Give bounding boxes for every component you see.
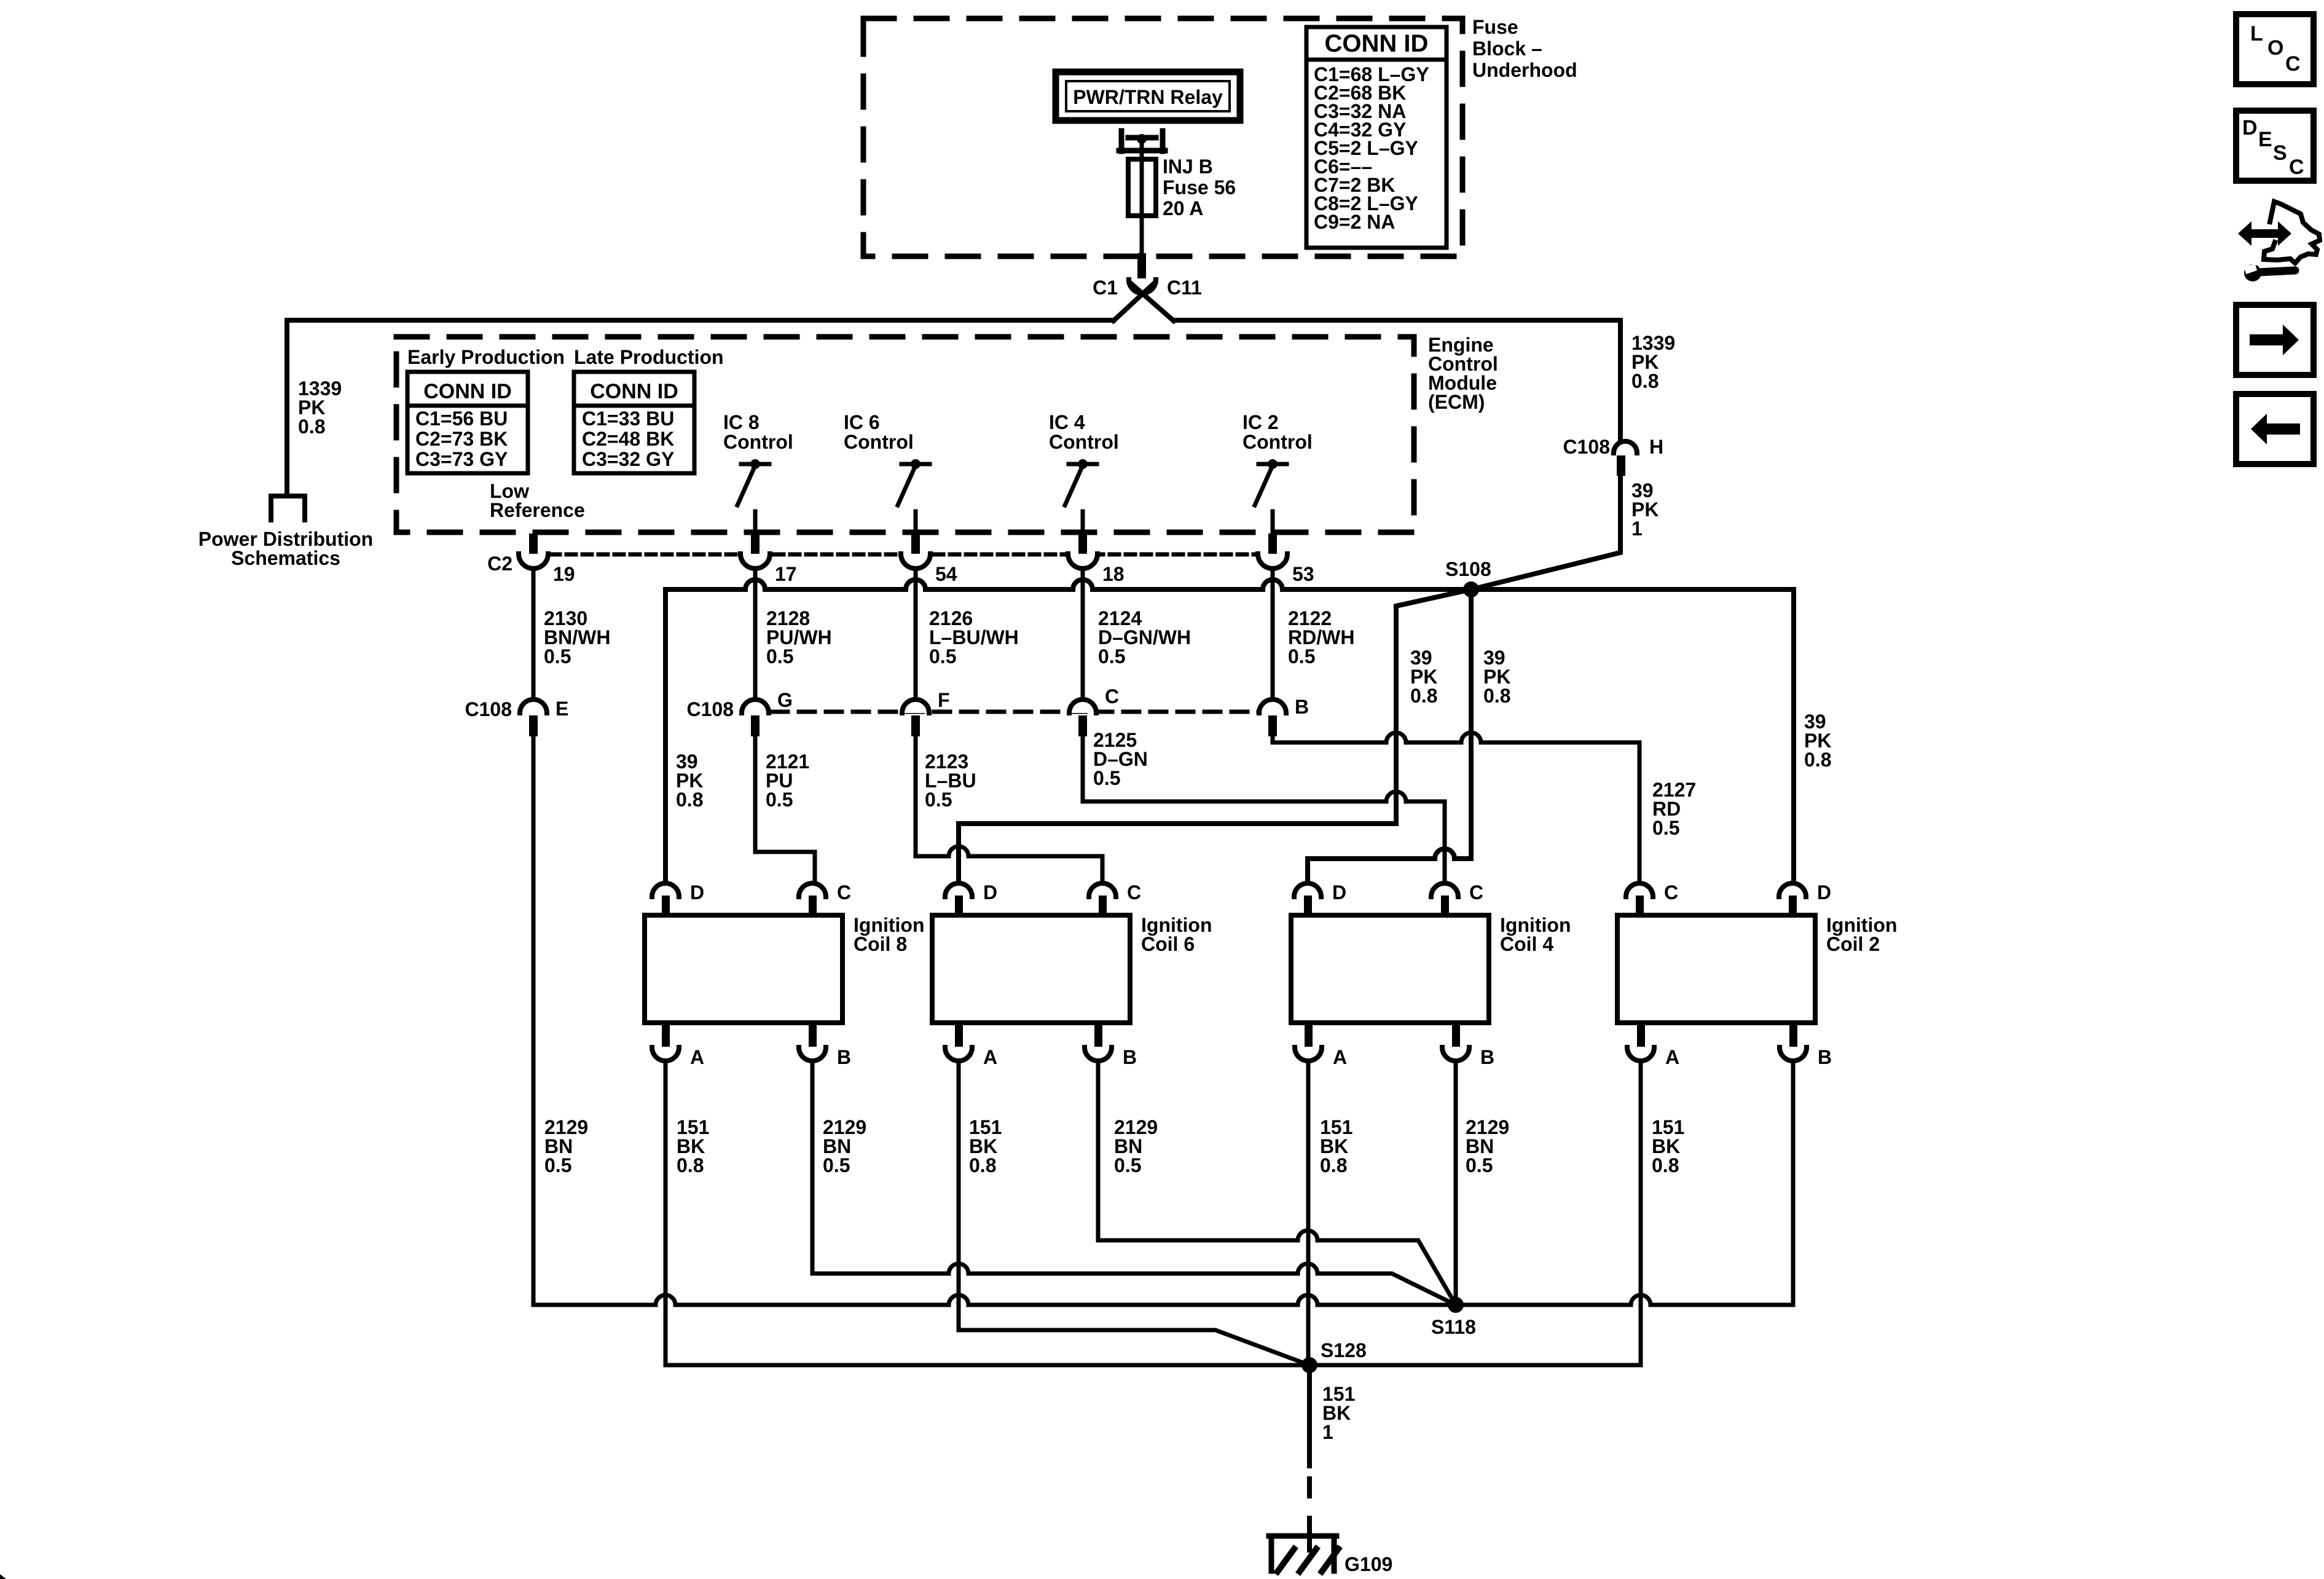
- svg-text:B: B: [837, 1046, 851, 1068]
- svg-text:C2=48 BK: C2=48 BK: [582, 428, 674, 450]
- svg-text:B: B: [1123, 1046, 1137, 1068]
- svg-text:18: 18: [1102, 563, 1125, 585]
- wire 2129 BN from coil 6 B to S118: [1098, 1061, 1456, 1305]
- svg-text:C108: C108: [465, 698, 512, 720]
- fuse block - underhood (dashed outline): [863, 18, 1462, 256]
- svg-text:20 A: 20 A: [1163, 197, 1203, 219]
- svg-text:0.5: 0.5: [925, 789, 952, 811]
- svg-text:C108: C108: [687, 698, 734, 720]
- node Power Distribution off-page bracket: [271, 496, 305, 520]
- connector table CONN ID (late production): [574, 372, 694, 473]
- svg-text:S108: S108: [1445, 558, 1491, 580]
- svg-text:G: G: [777, 689, 793, 711]
- connector C108 pin F: [902, 699, 929, 713]
- ignition coil 2 terminal C: [1626, 883, 1653, 897]
- svg-text:A: A: [1665, 1046, 1679, 1068]
- connector table CONN ID (early production): [407, 372, 528, 473]
- wire 2129 BN low reference bus from C108 E through S118 to coil 2 B: [533, 736, 1793, 1305]
- connector table CONN ID (fuse block underhood): [1306, 27, 1447, 248]
- svg-text:C11: C11: [1167, 277, 1202, 299]
- connector C108 pin E: [520, 699, 547, 713]
- svg-text:Schematics: Schematics: [231, 547, 340, 569]
- ignition coil 8 terminal B: [809, 1024, 817, 1047]
- svg-text:0.5: 0.5: [1466, 1154, 1493, 1176]
- connector C2 pin 18: [1070, 550, 1095, 558]
- wire 2126 L-BU/WH from pin 54 to C108 F: [914, 569, 918, 699]
- wire 2123 L-BU from C108 F to ignition coil 6 C: [916, 736, 1102, 884]
- svg-text:C: C: [2289, 156, 2304, 179]
- svg-text:C1=33 BU: C1=33 BU: [582, 408, 674, 430]
- svg-text:O: O: [2267, 36, 2283, 60]
- svg-text:Underhood: Underhood: [1472, 59, 1577, 81]
- svg-text:A: A: [983, 1046, 997, 1068]
- svg-text:0.5: 0.5: [1114, 1154, 1141, 1176]
- svg-text:0.8: 0.8: [969, 1154, 996, 1176]
- svg-text:0.8: 0.8: [1483, 685, 1510, 707]
- svg-text:CONN ID: CONN ID: [590, 380, 678, 403]
- splice S108: [1463, 581, 1479, 597]
- relay contact bracket and pin: [1119, 131, 1125, 151]
- svg-text:54: 54: [935, 563, 957, 585]
- svg-text:0.5: 0.5: [1288, 645, 1315, 667]
- svg-text:A: A: [690, 1046, 704, 1068]
- connector C108 pin B: [1259, 699, 1286, 713]
- connector C108 pin C: [1069, 699, 1096, 713]
- svg-text:Coil 6: Coil 6: [1141, 933, 1195, 955]
- svg-text:Reference: Reference: [490, 499, 585, 521]
- svg-text:A: A: [1333, 1046, 1347, 1068]
- svg-text:F: F: [938, 689, 950, 711]
- svg-text:0.8: 0.8: [298, 415, 325, 438]
- wire 2125 D-GN from C108 C to ignition coil 4 C: [1083, 736, 1445, 884]
- svg-text:E: E: [555, 698, 568, 720]
- relay K: PWR/TRN Relay box: [1056, 72, 1240, 120]
- svg-text:C3=32 GY: C3=32 GY: [582, 448, 674, 470]
- page corner mark: [0, 1574, 6, 1579]
- svg-text:G109: G109: [1345, 1553, 1392, 1575]
- connector C2 pin 53: [1260, 550, 1285, 558]
- sidebar icon back arrow: [2236, 394, 2314, 464]
- svg-text:D: D: [690, 881, 704, 904]
- connector C108 pin H: [1614, 441, 1637, 453]
- svg-text:Coil 2: Coil 2: [1826, 933, 1880, 955]
- svg-text:0.8: 0.8: [1804, 749, 1831, 771]
- svg-text:B: B: [1480, 1046, 1494, 1068]
- sidebar icon DESC: [2236, 111, 2314, 181]
- svg-text:H: H: [1649, 436, 1663, 458]
- svg-text:IC 8: IC 8: [723, 411, 760, 433]
- svg-text:1: 1: [1631, 518, 1643, 540]
- svg-text:Control: Control: [1242, 431, 1313, 453]
- connector C2 pin 17: [743, 550, 767, 558]
- wire 151 BK from coil 4 A to S128: [1306, 1061, 1311, 1365]
- svg-text:C2: C2: [487, 553, 512, 575]
- svg-text:IC 6: IC 6: [844, 411, 880, 433]
- connector C2 pin 19: [521, 550, 546, 558]
- svg-text:IC 4: IC 4: [1049, 411, 1085, 433]
- ignition coil 4 terminal A: [1305, 1024, 1313, 1047]
- splice S128: [1301, 1357, 1317, 1373]
- svg-text:0.8: 0.8: [1652, 1154, 1679, 1176]
- ignition coil 6 terminal B: [1094, 1024, 1102, 1047]
- wire 39 PK from C108 H down through S108 to coil 6 D: [959, 476, 1620, 884]
- wire 2124 D-GN/WH from pin 18 to C108 C: [1081, 569, 1085, 699]
- svg-text:0.5: 0.5: [1652, 817, 1679, 839]
- ignition coil 8 terminal A: [662, 1024, 670, 1047]
- svg-text:C9=2 NA: C9=2 NA: [1314, 211, 1396, 233]
- svg-text:PWR/TRN Relay: PWR/TRN Relay: [1073, 86, 1223, 108]
- svg-text:53: 53: [1292, 563, 1314, 585]
- svg-text:S: S: [2273, 141, 2287, 165]
- svg-text:Block –: Block –: [1472, 37, 1542, 60]
- svg-text:C: C: [1105, 685, 1119, 707]
- svg-text:C: C: [1127, 881, 1141, 904]
- svg-text:Coil 8: Coil 8: [854, 933, 907, 955]
- Engine Control Module (ECM) dashed box: [396, 337, 1414, 532]
- svg-text:0.5: 0.5: [766, 789, 793, 811]
- wire 151 BK from coil 6 A to S128: [959, 1061, 1309, 1365]
- svg-text:C2=73 BK: C2=73 BK: [415, 428, 508, 450]
- svg-text:C: C: [1469, 881, 1483, 904]
- ignition coil 2 box: [1617, 915, 1815, 1023]
- svg-text:S118: S118: [1431, 1316, 1476, 1338]
- ignition coil 4 terminal B: [1452, 1024, 1460, 1047]
- fuse F56 symbol (INJ B Fuse 56 20 A): [1128, 159, 1156, 216]
- svg-text:INJ B: INJ B: [1163, 156, 1213, 178]
- connector C2 pin 54: [903, 550, 928, 558]
- svg-text:0.8: 0.8: [676, 789, 703, 811]
- wire 2121 PU from C108 G to ignition coil 8 C: [755, 736, 815, 884]
- connector row dashed line (C108): [772, 710, 1260, 714]
- svg-text:C: C: [2285, 52, 2301, 76]
- svg-text:CONN ID: CONN ID: [423, 380, 512, 403]
- svg-text:E: E: [2258, 128, 2272, 151]
- svg-text:IC 2: IC 2: [1242, 411, 1279, 433]
- ignition coil 8 box: [645, 915, 842, 1023]
- splice S118: [1448, 1297, 1464, 1313]
- ignition coil 2 terminal B: [1789, 1024, 1797, 1047]
- svg-text:Fuse 56: Fuse 56: [1163, 176, 1236, 199]
- svg-text:L: L: [2250, 22, 2263, 45]
- svg-text:C: C: [837, 881, 851, 904]
- svg-text:C: C: [1664, 881, 1678, 904]
- ignition coil 2 terminal D: [1779, 883, 1806, 897]
- ignition coil 8 terminal C: [799, 883, 826, 897]
- wire 1339 PK right branch to C108 H: [1174, 320, 1620, 439]
- svg-text:0.5: 0.5: [544, 1154, 571, 1176]
- svg-text:Control: Control: [1049, 431, 1119, 453]
- svg-text:0.5: 0.5: [1098, 645, 1125, 667]
- svg-text:0.8: 0.8: [1320, 1154, 1347, 1176]
- wire 2122 RD/WH from pin 53 to C108 B: [1271, 569, 1275, 699]
- sidebar jump icon (double arrow with wrench): [2238, 221, 2291, 246]
- wire 2122 RD/WH continued: C108 B to wire 2127 RD to ignition coil 2 C: [1273, 733, 1639, 884]
- wire 1339 PK left branch to Power Distribution: [287, 320, 1113, 495]
- wire 2130 BN/WH from C2 pin 19 to C108 E: [532, 569, 536, 699]
- svg-text:0.8: 0.8: [1631, 370, 1659, 392]
- svg-text:B: B: [1818, 1046, 1832, 1068]
- svg-text:0.5: 0.5: [1093, 767, 1120, 789]
- connector row dotted line (ECM C2): [519, 553, 1282, 557]
- svg-text:D: D: [1332, 881, 1346, 904]
- svg-text:CONN ID: CONN ID: [1325, 30, 1429, 57]
- ignition coil 6 terminal D: [945, 883, 972, 897]
- wire X split below C1/C11: [1113, 282, 1155, 321]
- svg-text:C1=56 BU: C1=56 BU: [415, 408, 508, 430]
- svg-text:D: D: [1817, 881, 1831, 904]
- connector C108 pin G: [742, 699, 769, 713]
- svg-text:D: D: [983, 881, 997, 904]
- svg-text:0.5: 0.5: [929, 645, 956, 667]
- ignition coil 4 terminal C: [1431, 883, 1458, 897]
- connector C1 / C11 (fuse block to harness): [1137, 253, 1146, 278]
- ground G109 symbol: [1269, 1534, 1337, 1539]
- wire 151 BK 1 from S128 to ground G109: [1307, 1365, 1312, 1466]
- wire 2129 BN from coil 8 B to S118: [812, 1061, 1456, 1305]
- svg-text:17: 17: [775, 563, 797, 585]
- svg-text:B: B: [1295, 696, 1309, 718]
- svg-text:1: 1: [1322, 1421, 1333, 1443]
- svg-text:C108: C108: [1563, 436, 1611, 458]
- wire 2129 BN from coil 4 B to S118: [1454, 1061, 1458, 1305]
- svg-text:0.8: 0.8: [1410, 685, 1437, 707]
- ignition coil 6 terminal A: [955, 1024, 963, 1047]
- ignition coil 4 box: [1291, 915, 1489, 1023]
- svg-text:Early Production: Early Production: [407, 346, 565, 368]
- ignition coil 4 terminal D: [1294, 883, 1321, 897]
- svg-text:Control: Control: [844, 431, 914, 453]
- svg-text:D: D: [2242, 116, 2258, 140]
- svg-text:C1: C1: [1093, 277, 1118, 299]
- svg-text:Coil 4: Coil 4: [1500, 933, 1553, 955]
- svg-text:0.5: 0.5: [544, 645, 571, 667]
- sidebar icon forward arrow: [2236, 305, 2314, 375]
- svg-text:S128: S128: [1321, 1339, 1367, 1361]
- ignition coil 8 terminal D: [652, 883, 679, 897]
- wire 39 PK bus from coil 8 D across to coil 2 D (through S108): [665, 580, 1794, 884]
- svg-text:(ECM): (ECM): [1428, 391, 1485, 413]
- svg-text:0.5: 0.5: [766, 645, 793, 667]
- ignition coil 6 terminal C: [1089, 883, 1116, 897]
- sidebar icon LOC: [2236, 14, 2314, 84]
- wire from relay to fuse F56: [1140, 139, 1144, 161]
- ignition coil 6 box: [932, 915, 1130, 1023]
- wire 2128 PU/WH from pin 17 to C108 G: [753, 569, 758, 699]
- svg-text:Control: Control: [723, 431, 793, 453]
- svg-text:0.5: 0.5: [823, 1154, 850, 1176]
- svg-text:0.8: 0.8: [677, 1154, 704, 1176]
- svg-text:19: 19: [553, 563, 575, 585]
- wire 39 PK from S108 down to coil 4 D: [1308, 589, 1471, 884]
- wire 151 BK ground bus from coil 8 A through S128 to coil 2 A: [665, 1061, 1641, 1365]
- svg-text:Fuse: Fuse: [1472, 16, 1518, 38]
- svg-text:C3=73 GY: C3=73 GY: [415, 448, 508, 470]
- svg-text:Late Production: Late Production: [574, 346, 724, 368]
- ignition coil 2 terminal A: [1637, 1024, 1645, 1047]
